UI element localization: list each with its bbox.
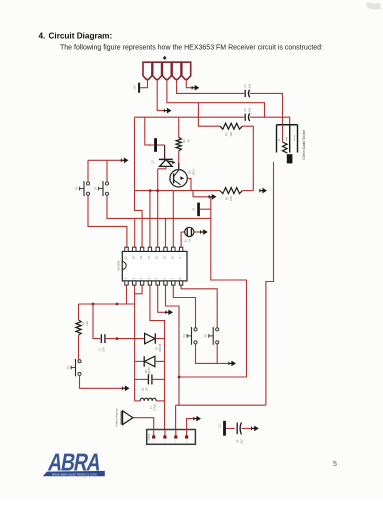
svg-text:10: 10 [170,256,174,260]
svg-text:CON4: CON4 [149,433,151,440]
svg-text:Q1: Q1 [188,170,192,174]
svg-text:C2: C2 [243,84,247,88]
svg-text:1N4148: 1N4148 [160,343,162,352]
svg-text:1N4148: 1N4148 [149,367,151,376]
svg-text:12: 12 [155,256,159,260]
svg-text:13: 13 [147,256,151,260]
svg-text:The following figure represent: The following figure represents how the … [60,45,323,52]
svg-text:sleeve: sleeve [294,134,296,141]
svg-text:S2: S2 [74,186,78,190]
svg-text:WWW.ABRA-ELECTRONICS.COM: WWW.ABRA-ELECTRONICS.COM [52,473,97,476]
svg-text:R4: R4 [225,132,229,136]
svg-text:R5: R5 [225,196,229,200]
svg-text:10K: 10K [229,132,233,137]
svg-text:S4: S4 [182,334,186,338]
svg-text:14: 14 [139,256,143,260]
svg-text:11: 11 [163,256,167,259]
svg-text:Circuit Diagram:: Circuit Diagram: [49,32,113,41]
svg-text:5: 5 [333,461,337,468]
svg-text:R2: R2 [182,139,186,143]
svg-text:10K: 10K [85,321,89,326]
svg-text:10uF: 10uF [241,438,244,444]
svg-text:15: 15 [131,256,135,260]
svg-text:External Antenna: External Antenna [116,408,119,427]
svg-text:104: 104 [188,238,191,243]
svg-text:4.: 4. [39,32,46,41]
svg-text:C11: C11 [218,423,221,428]
svg-text:104: 104 [247,83,251,88]
svg-text:10K: 10K [229,196,233,201]
svg-text:S3: S3 [93,186,97,190]
svg-text:16: 16 [124,256,128,260]
svg-text:R1: R1 [81,321,85,325]
svg-text:S5: S5 [204,334,208,338]
svg-text:HEX3653: HEX3653 [117,260,120,271]
svg-text:S1: S1 [66,365,70,369]
svg-text:1.5V: 1.5V [134,85,137,90]
svg-text:104: 104 [247,107,251,112]
svg-text:C3: C3 [243,108,247,112]
svg-text:104: 104 [103,347,106,352]
svg-text:3.5mm Audio Socket: 3.5mm Audio Socket [302,130,306,160]
svg-text:9014: 9014 [191,169,195,175]
svg-text:1K: 1K [186,139,190,142]
svg-text:4.7uH: 4.7uH [154,404,156,410]
